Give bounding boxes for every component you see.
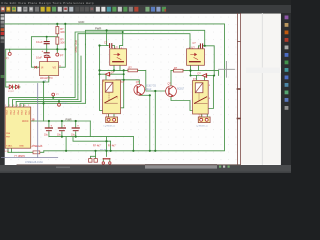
wire ch2 base label row: [146, 90, 166, 92]
wire cap2 lead: [46, 49, 48, 52]
pin circle A: [52, 93, 60, 96]
node on W1 at R column: [56, 23, 58, 25]
wire bundle to MCU pin2: [13, 100, 78, 108]
svg-text:VO: VO: [53, 67, 57, 70]
wire drop x66: [65, 137, 67, 151]
node mid row: [61, 136, 63, 138]
wire W2 PWR rail: [85, 30, 204, 46]
wire W4 to opto2 pin1: [78, 34, 190, 49]
wire diode row lower-left: [6, 86, 20, 88]
svg-text:VI: VI: [41, 67, 44, 70]
node ch1 diode row: [99, 73, 101, 75]
capacitor C ch2 feed: [193, 42, 203, 48]
wire regulator output to W1: [59, 24, 66, 67]
page edge line: [261, 14, 263, 165]
relay K1: [103, 80, 125, 114]
wire left bundle vertical a: [74, 44, 76, 98]
wire ch1 cap to pin: [112, 46, 114, 49]
svg-text:GND: GND: [19, 146, 24, 148]
wire W3 to opto1 pin2: [75, 32, 123, 49]
wire relay1 terminal stubs: [108, 114, 110, 117]
wire ch2 transistor top: [170, 71, 172, 86]
opto U3: [187, 46, 205, 65]
svg-text:P?: P?: [6, 57, 10, 61]
wire ch1 left wrap vertical: [100, 46, 109, 111]
node ch2 cap: [204, 45, 206, 47]
svg-text:BC817: BC817: [177, 89, 185, 91]
resistor R bottom a: [89, 159, 92, 163]
wire drop x90: [89, 121, 91, 137]
node on W2 ch1 feed: [106, 29, 108, 31]
wire pin circle B stub: [58, 101, 60, 103]
capacitor C1: [36, 40, 49, 44]
wire relay2 terminal stubs: [201, 114, 203, 117]
regulator U1: [36, 57, 61, 83]
svg-text:10K: 10K: [60, 40, 65, 44]
connector bottom c: [102, 159, 111, 164]
wire drop x106: [106, 137, 108, 151]
wire ch2 control vertical: [154, 91, 156, 151]
svg-text:AVCC: AVCC: [22, 120, 29, 123]
wire PWR row y121: [31, 120, 91, 122]
right toolbar: [281, 14, 291, 174]
svg-text:t.y.95005-xx: t.y.95005-xx: [196, 125, 209, 128]
wire ch2 emitter wrap: [171, 97, 193, 111]
svg-text:XTAL1: XTAL1: [6, 145, 13, 148]
wire pin P1 stub: [9, 49, 11, 52]
svg-text:ATMEGA8: ATMEGA8: [32, 145, 44, 148]
crystal Y1: [14, 151, 40, 158]
node ch2 base row: [189, 70, 191, 72]
resistor R1: [56, 27, 65, 34]
svg-text:File Edit View Place Design To: File Edit View Place Design Tools Prefer…: [2, 1, 94, 5]
wire ch1 collector row: [116, 80, 139, 84]
wire ch1 emitter row: [139, 94, 150, 96]
svg-text:GND1: GND1: [62, 103, 69, 105]
wire relay1 right wrap: [121, 70, 124, 107]
wire ch2 cap row to right: [205, 46, 215, 76]
wire left bundle vertical c: [80, 56, 82, 101]
svg-text:+: +: [42, 49, 44, 53]
sheet border bottom line: [17, 164, 241, 166]
svg-text:BC817-25: BC817-25: [146, 86, 157, 88]
node ch1 cap corner: [98, 44, 100, 46]
svg-text:0.1uF: 0.1uF: [36, 40, 43, 44]
wire left bundle vertical d: [84, 44, 86, 103]
wire cap1 leads: [46, 37, 48, 42]
wire resistor column stub: [56, 24, 58, 27]
node W3 branch: [122, 31, 124, 33]
wire ch1 feed from W2: [107, 30, 109, 45]
wire crystal row: [8, 151, 33, 153]
wire drop x133: [132, 137, 134, 151]
wire ch1 control vertical: [149, 95, 151, 151]
wire ch1 resistor to transistor: [138, 70, 146, 90]
svg-text:REL2: REL2: [146, 89, 152, 91]
capacitor C5 polarized: [71, 125, 79, 137]
diode pair D? lower-left: [8, 85, 19, 93]
wire bundle to MCU pin3: [16, 101, 81, 107]
transistor Q2: [166, 83, 185, 97]
status bar: [0, 165, 291, 173]
wire drop x110: [110, 141, 112, 151]
wire MCU pin5 stub: [23, 105, 25, 108]
wire top-left loop to regulator input: [31, 37, 57, 67]
pin circle B: [58, 103, 69, 106]
wire left bundle vertical b: [77, 44, 79, 100]
wire y141 row: [73, 137, 111, 142]
svg-text:VCC_BAR1: VCC_BAR1: [74, 40, 77, 53]
diode D ch1 flyback: [105, 71, 114, 76]
regulator U1 pin mark: [35, 66, 37, 68]
capacitor C ch1 feed: [104, 42, 112, 48]
pin P2 circle: [56, 53, 64, 57]
wire bundle to MCU pin4: [20, 103, 85, 107]
wire W1 GND rail top: [5, 24, 225, 151]
node pin B: [58, 100, 60, 102]
svg-text:GND: GND: [78, 20, 84, 24]
opto U2: [110, 46, 127, 65]
transistor Q1: [134, 81, 157, 95]
wire horizontal y49: [6, 48, 66, 50]
node pin A: [52, 97, 54, 99]
area right of sheet tint: [241, 14, 281, 165]
relay K2: [193, 78, 211, 114]
svg-text:P?: P?: [60, 54, 64, 58]
wire cap trio top leads: [48, 121, 50, 127]
node y49 cap: [46, 36, 48, 38]
menu bar: [0, 0, 291, 5]
pin P1 circle: [6, 52, 12, 60]
node ch2 diode row: [190, 75, 192, 77]
wire cap trio bottom leads: [48, 132, 50, 137]
node ch2 base: [154, 90, 156, 92]
node reg bottom branch: [43, 81, 45, 83]
svg-text:ATMEGA8-16AU: ATMEGA8-16AU: [25, 161, 43, 164]
svg-text:10uF: 10uF: [36, 56, 42, 60]
wire header drop x43: [43, 82, 45, 121]
capacitor C4 polarized: [57, 125, 66, 137]
node ch1 base row: [98, 69, 100, 71]
wire ch2 opto bottom pins: [190, 65, 192, 75]
wire ch1 base row y70: [100, 69, 129, 71]
wire ch1 diode row: [100, 73, 124, 75]
wire lower mid row y136: [49, 136, 133, 138]
svg-text:t.y.95005-xx: t.y.95005-xx: [104, 125, 117, 128]
svg-text:PWR: PWR: [95, 26, 101, 30]
wire regulator bottom: [6, 76, 49, 83]
faint panel band: [246, 68, 281, 74]
wire pin circle A stub: [52, 96, 54, 98]
diode D ch2 flyback: [198, 73, 207, 78]
node on W1 at regulator feed: [64, 23, 66, 25]
MCU U4: [5, 105, 44, 153]
capacitor C2 polarized: [36, 49, 49, 59]
wire ch2 diode row: [191, 75, 215, 77]
wire bundle to MCU pin1: [9, 98, 75, 107]
node ch1 collector: [123, 79, 125, 81]
wire relay2 right wrap: [208, 76, 213, 109]
bus vertical: [37, 84, 39, 158]
svg-text:PWR: PWR: [66, 117, 72, 121]
terminal block X1: [104, 116, 118, 128]
resistor R ch1 base: [128, 67, 138, 72]
sheet border right double line: [237, 14, 240, 165]
wire pin P2 stub: [56, 49, 58, 53]
svg-text:R? 4k7: R? 4k7: [108, 145, 116, 148]
node ch1 emitter: [149, 94, 151, 96]
node bottom rail: [65, 150, 67, 152]
svg-text:R? 4k7: R? 4k7: [93, 145, 101, 148]
toolbar: [0, 5, 291, 14]
terminal block X2: [196, 116, 210, 128]
wire left lower vertical: [5, 49, 7, 87]
wire ch2 base row y70: [171, 70, 174, 72]
cursor crosshair: [219, 61, 235, 77]
wire MCU bottom pin stubs: [7, 148, 9, 152]
node pwr row caps: [48, 120, 50, 122]
wire ch2 feed cap: [203, 45, 204, 47]
resistor R bottom b: [94, 159, 97, 163]
resistor R ch2 base: [174, 67, 184, 72]
canvas background: [0, 14, 291, 166]
wire ch1 opto bottom pins: [113, 65, 115, 70]
node bundle pin4: [43, 102, 45, 104]
svg-text:LD1117/TO: LD1117/TO: [40, 77, 53, 80]
left toolbar: [0, 14, 5, 166]
svg-text:Q?: Q?: [136, 81, 140, 84]
capacitor C3 polarized: [44, 125, 53, 137]
wire relay2 top pin stubs: [196, 76, 198, 81]
wire bottom tiny comps: [91, 151, 96, 159]
svg-text:VCC: VCC: [28, 111, 30, 116]
wire relay1 top pin stubs: [105, 74, 107, 80]
svg-text:D? D?: D? D?: [8, 91, 15, 93]
resistor R2: [56, 37, 65, 44]
bus horizontal: [2, 157, 59, 159]
svg-text:xxx xxx: xxx xxx: [100, 149, 108, 151]
svg-text:10K: 10K: [60, 30, 65, 34]
